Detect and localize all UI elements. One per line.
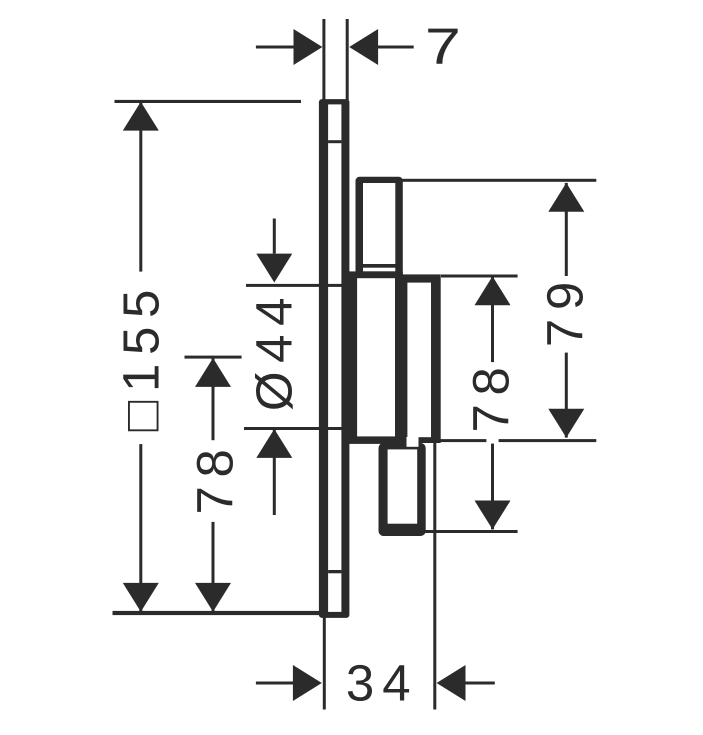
valve body outer shell interior [407,283,431,438]
dimension line 155 upper segment [139,102,142,272]
dimension line 79 lower segment [565,353,568,438]
extension line diameter44 bottom [244,427,351,430]
valve body inner section interior [357,278,395,436]
arrow diameter44 up [256,429,292,458]
dimension line 7 left tail [256,46,294,49]
front plate interior [328,104,341,612]
svg-text:Ø44: Ø44 [246,289,303,411]
arrow 34 right-pointing [293,665,322,701]
arrow 155 up [123,102,159,131]
svg-text:□155: □155 [113,281,170,431]
extension line 78-left top [185,356,242,359]
arrow 78-right down [475,501,511,530]
svg-text:78: 78 [463,359,520,433]
svg-text:7: 7 [425,18,461,75]
arrow 79 up [548,183,584,212]
arrow 34 left-pointing [437,665,466,701]
extension line 34 left [323,617,326,710]
dimension line 34 right tail [465,682,494,685]
valve body internal band bottom stub [402,440,407,450]
dimension line 34 left tail [256,682,293,685]
arrow 79 down [548,409,584,438]
dimension line 155 lower segment [139,444,142,612]
front plate upper tick [328,140,341,143]
extension line 79 bottom right segment [499,439,597,442]
extension line 78-right bottom [421,530,518,533]
svg-text:79: 79 [537,273,594,347]
dimension line diameter44 lower segment [273,429,276,515]
dimension line 7 right tail [378,46,414,49]
arrow 7 right-pointing [294,29,323,65]
extension line 7-dim right [346,19,349,101]
front plate lower tick [328,570,341,573]
sleeve lower sliver [363,268,395,272]
extension line 79 bottom left segment [440,439,486,442]
dimension line 78-right upper segment [491,276,494,362]
arrow 78-left down [195,583,231,612]
sleeve (top step) outer [356,177,403,278]
arrow 7 left-pointing [349,29,378,65]
extension line diameter44 top [246,284,350,287]
arrow 155 down [123,583,159,612]
extension line 79 top [401,179,596,182]
arrow 78-left up [195,358,231,387]
svg-text:34: 34 [346,654,419,711]
extension line top left (155 top) [115,100,302,103]
sleeve interior [363,183,395,264]
junction white notch [407,437,419,447]
dimension line diameter44 upper segment [273,219,276,254]
valve body inner section [348,271,402,444]
svg-text:78: 78 [187,441,244,515]
dimension line 78-left lower segment [212,522,215,612]
valve body outer shell [402,274,441,443]
extension line 78-right top [441,275,518,278]
extension line 34 right [433,442,436,710]
dimension line 79 upper segment [565,183,568,276]
lower step outer [379,443,426,536]
extension line bottom left (155/78 bottom) [113,611,321,615]
arrow 78-right up [475,276,511,305]
lower step interior [388,449,418,523]
front plate outer body [319,99,350,618]
dimension line 78-left upper segment [212,358,215,440]
extension line 7-dim left [322,19,325,101]
arrow diameter44 down [256,254,292,283]
dimension line 78-right lower segment [491,444,494,530]
